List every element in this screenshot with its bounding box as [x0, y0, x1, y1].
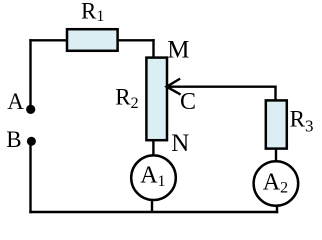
terminal dot B: [27, 137, 36, 146]
svg-text:A: A: [7, 89, 24, 114]
terminal dot A: [26, 105, 35, 114]
wire: R2 bottom to ammeter A1: [152, 140, 154, 156]
wire: left vertical from terminal B down to bottom rail: [29, 141, 31, 213]
wire: ammeter A1 bottom to bottom rail: [151, 200, 153, 213]
resistor R1: [67, 29, 118, 51]
resistor R3: [266, 100, 287, 148]
wire: top rail left segment: [29, 39, 66, 41]
svg-text:N: N: [171, 130, 189, 157]
ammeter A2: [254, 161, 299, 206]
wire: down from top rail to R2 top (node M): [152, 39, 154, 57]
wiper arrow from R3 branch to R2 (contact C): [167, 79, 276, 95]
wire: R3 bottom to ammeter A2: [275, 148, 277, 162]
svg-text:B: B: [6, 127, 21, 152]
svg-text:M: M: [167, 37, 189, 64]
ammeter A1: [131, 155, 176, 200]
wire: bottom rail: [29, 211, 278, 213]
wire: left vertical from top rail down to terminal A: [29, 39, 31, 109]
wire: from wiper branch down to R3 top: [274, 86, 276, 101]
svg-text:C: C: [180, 89, 196, 115]
wire: top rail right segment: [118, 39, 155, 41]
wire: stub from bottom rail up to ammeter A2: [276, 206, 278, 214]
resistor R2 (rheostat body): [146, 58, 167, 141]
